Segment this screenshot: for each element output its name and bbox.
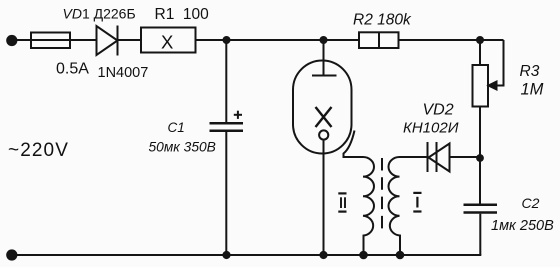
svg-text:R3: R3 (520, 63, 540, 80)
svg-text:1M: 1M (521, 81, 544, 99)
svg-text:КН102И: КН102И (403, 120, 459, 137)
svg-text:0.5A: 0.5A (56, 61, 89, 78)
svg-text:1N4007: 1N4007 (98, 65, 149, 81)
svg-text:~220V: ~220V (8, 140, 69, 161)
svg-text:50мк 350В: 50мк 350В (149, 140, 216, 155)
svg-text:C2: C2 (522, 195, 540, 211)
svg-text:R2 180k: R2 180k (353, 12, 412, 29)
svg-text:1мк 250В: 1мк 250В (491, 218, 554, 234)
svg-text:X: X (161, 31, 173, 52)
svg-text:VD1 Д226Б: VD1 Д226Б (63, 6, 136, 22)
svg-text:C1: C1 (168, 120, 185, 135)
svg-text:R1 100: R1 100 (155, 6, 210, 23)
svg-text:VD2: VD2 (423, 102, 454, 119)
